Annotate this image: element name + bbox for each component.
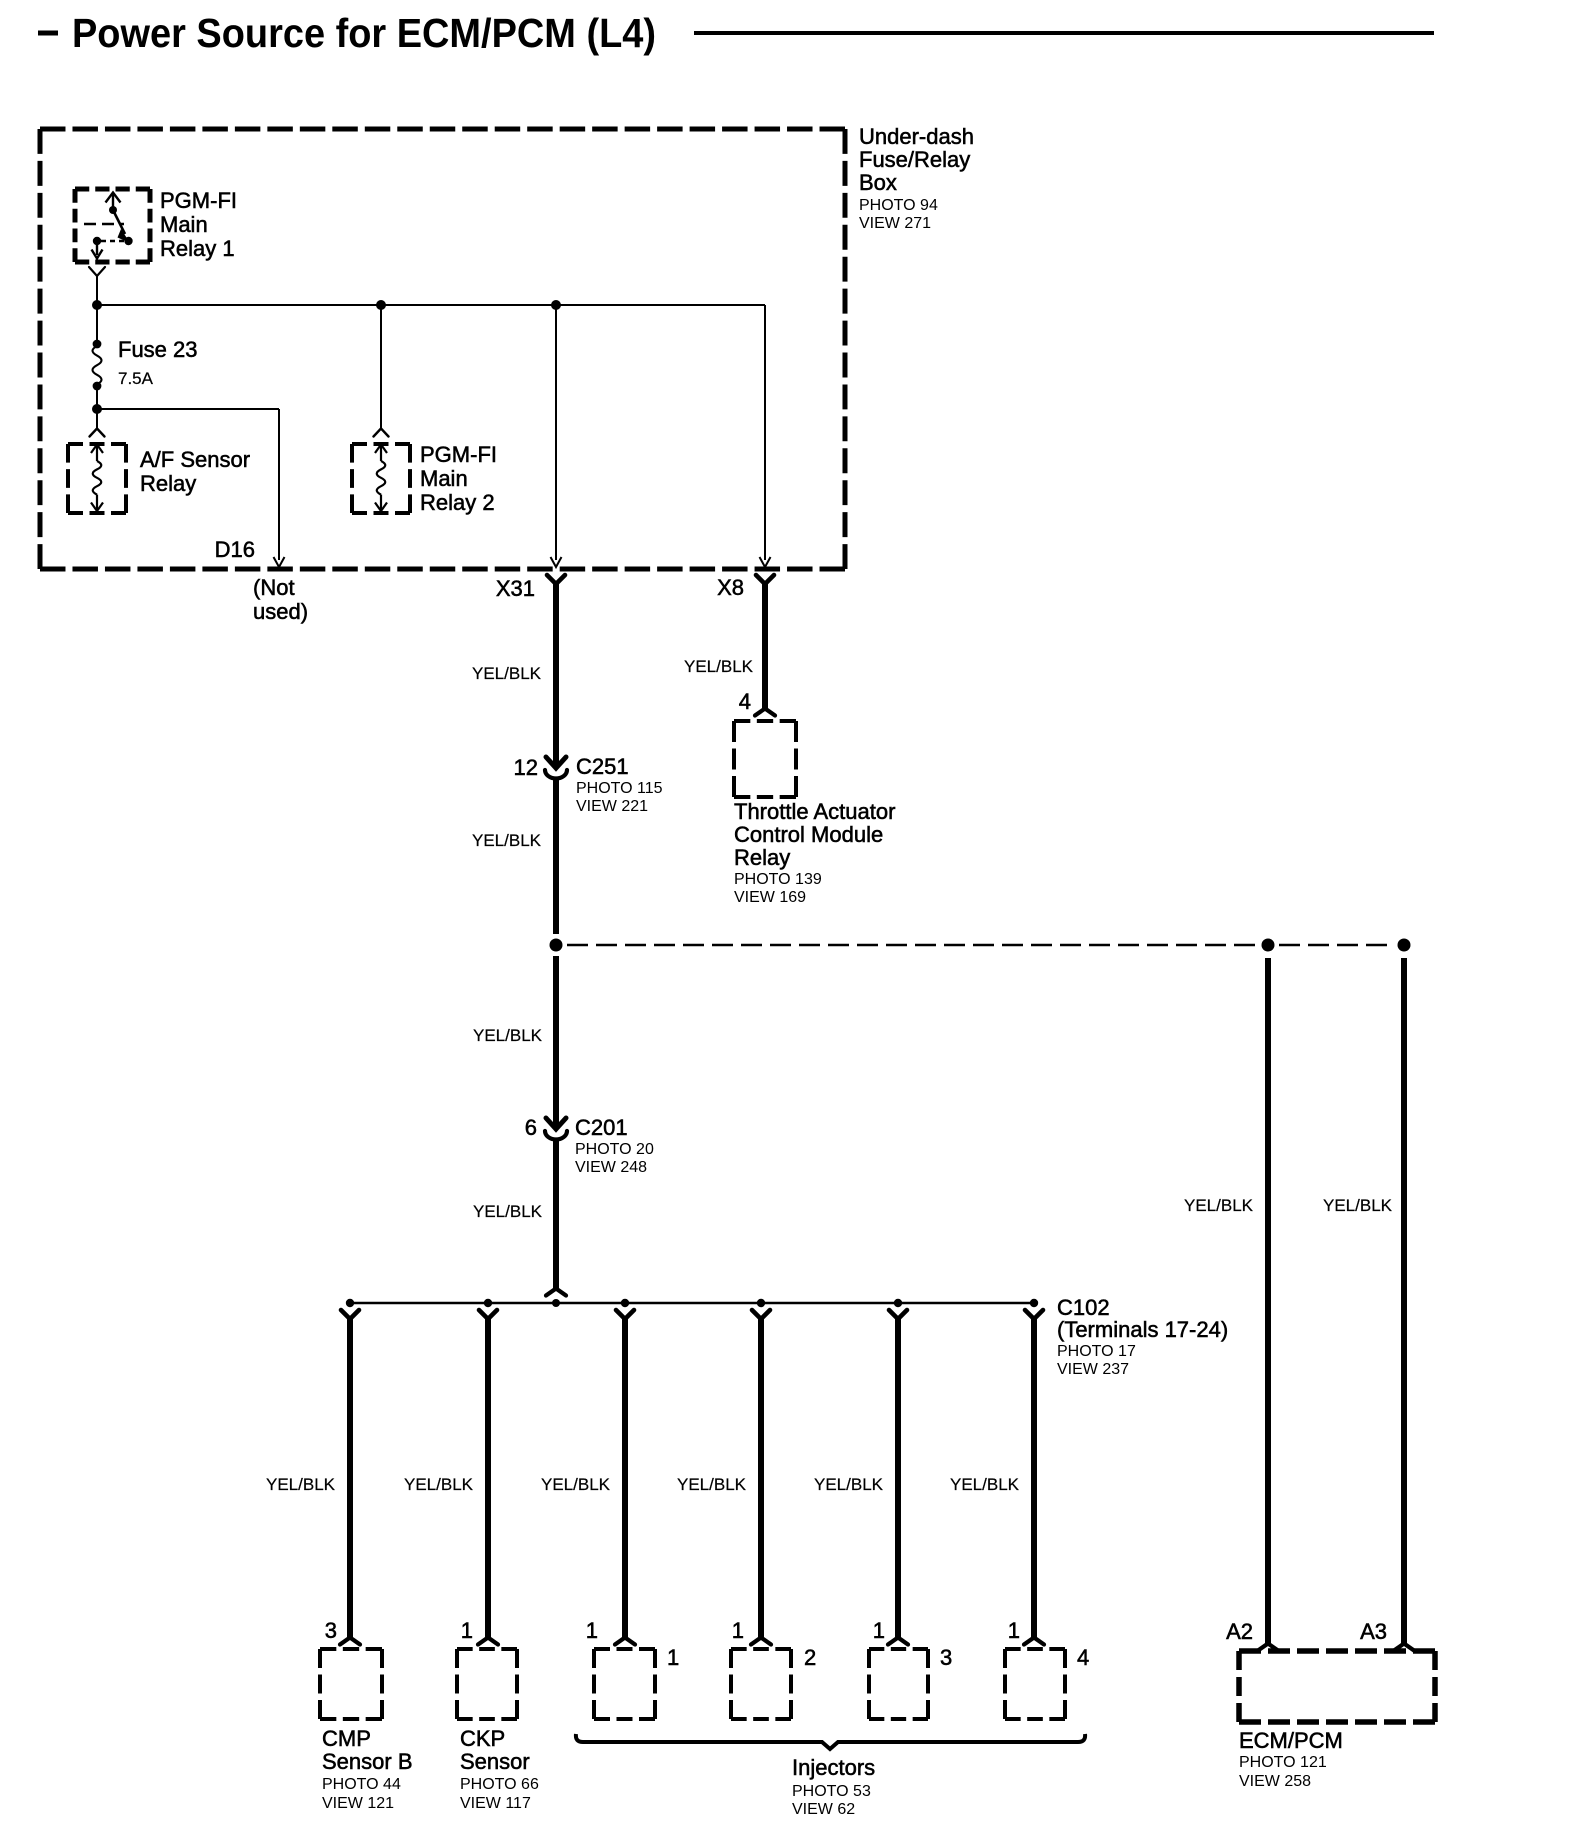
junction node C (A2 col) xyxy=(1262,939,1275,952)
fork connector branch 4 xyxy=(752,1310,770,1319)
wire lower bus xyxy=(350,1302,1034,1304)
relay K3 coil symbol xyxy=(375,445,387,512)
svg-text:Main: Main xyxy=(160,212,208,237)
arch connector branch 5 xyxy=(888,1638,908,1645)
svg-text:Throttle Actuator: Throttle Actuator xyxy=(734,799,895,824)
wire branch 6 (YEL/BLK) xyxy=(1031,1318,1037,1637)
relay K1 upper contact dot xyxy=(109,206,117,214)
arch connector at lower bus feed xyxy=(546,1289,566,1296)
title dash xyxy=(38,31,58,36)
arch connector branch 3 xyxy=(615,1638,635,1645)
relay K1 PGM-FI Main Relay 1 box (dashed) xyxy=(75,189,150,262)
throttle actuator control module relay box (dashed) xyxy=(734,721,796,797)
arch connector at ECM pin A3 xyxy=(1394,1644,1414,1651)
wire branch 2 (YEL/BLK) xyxy=(485,1318,491,1637)
junction lower bus dot 3 xyxy=(552,1299,560,1307)
under-dash fuse/relay box (dashed) xyxy=(40,129,845,569)
svg-text:Fuse/Relay: Fuse/Relay xyxy=(859,147,970,172)
relay K1 moving contact dot xyxy=(124,237,132,245)
arch connector branch 4 xyxy=(751,1638,771,1645)
junction lower bus dot 7 xyxy=(1030,1299,1038,1307)
svg-text:4: 4 xyxy=(739,689,751,714)
svg-text:VIEW 121: VIEW 121 xyxy=(322,1795,394,1812)
fork connector below relay K1 xyxy=(89,267,105,276)
ECM/PCM box (dashed) xyxy=(1239,1651,1435,1722)
junction node A (relay2 col) xyxy=(376,300,386,310)
junction lower bus dot 2 xyxy=(484,1299,492,1307)
svg-text:6: 6 xyxy=(525,1115,537,1140)
svg-text:YEL/BLK: YEL/BLK xyxy=(677,1475,747,1494)
fork connector branch 1 xyxy=(341,1310,359,1319)
svg-text:Relay 2: Relay 2 xyxy=(420,490,495,515)
wire node B to A/F sensor relay xyxy=(96,409,98,428)
arch connector branch 1 xyxy=(340,1638,360,1645)
svg-text:A3: A3 xyxy=(1360,1619,1387,1644)
arrow into border at X31 xyxy=(551,557,562,567)
svg-text:VIEW 248: VIEW 248 xyxy=(575,1159,647,1176)
svg-text:Fuse 23: Fuse 23 xyxy=(118,337,198,362)
injector 2 box (dashed) xyxy=(731,1649,791,1719)
svg-text:3: 3 xyxy=(940,1645,952,1670)
wire X8 to TAC relay (YEL/BLK) xyxy=(762,583,768,708)
junction node A (fuse col) xyxy=(92,300,102,310)
wire relay K1 to node A xyxy=(96,276,98,305)
svg-text:1: 1 xyxy=(1008,1618,1020,1643)
svg-text:3: 3 xyxy=(325,1618,337,1643)
svg-text:YEL/BLK: YEL/BLK xyxy=(472,831,542,850)
svg-text:PHOTO 53: PHOTO 53 xyxy=(792,1783,871,1800)
svg-text:Control Module: Control Module xyxy=(734,822,883,847)
arrow into border at X8 xyxy=(760,557,771,567)
wire node A corner to X8 xyxy=(764,305,766,560)
svg-text:X8: X8 xyxy=(717,575,744,600)
junction lower bus dot 6 xyxy=(894,1299,902,1307)
svg-text:PHOTO 20: PHOTO 20 xyxy=(575,1141,654,1158)
svg-text:ECM/PCM: ECM/PCM xyxy=(1239,1728,1343,1753)
svg-text:2: 2 xyxy=(804,1645,816,1670)
svg-text:YEL/BLK: YEL/BLK xyxy=(1323,1196,1393,1215)
wire branch 5 (YEL/BLK) xyxy=(895,1318,901,1637)
injectors brace xyxy=(576,1734,1085,1749)
arch connector at TAC relay pin 4 xyxy=(755,709,775,716)
svg-text:1: 1 xyxy=(461,1618,473,1643)
connector C251 inline symbol xyxy=(546,757,566,768)
dashed tie node C to A2 wire xyxy=(567,944,1257,946)
arch connector branch 2 xyxy=(478,1638,498,1645)
wire node C to ECM A2 (YEL/BLK) xyxy=(1265,958,1271,1643)
title rule xyxy=(694,31,1434,35)
svg-text:PGM-FI: PGM-FI xyxy=(420,442,497,467)
wire fuse 23 to node B xyxy=(96,390,98,409)
svg-text:YEL/BLK: YEL/BLK xyxy=(814,1475,884,1494)
arrow into border at D16 xyxy=(274,557,285,567)
wire node C to C201 (YEL/BLK) xyxy=(553,956,559,1126)
svg-text:X31: X31 xyxy=(496,576,535,601)
junction lower bus dot 1 xyxy=(346,1299,354,1307)
svg-text:CKP: CKP xyxy=(460,1726,505,1751)
relay K2 A/F Sensor Relay box (dashed) xyxy=(68,444,126,513)
fork connector branch 2 xyxy=(479,1310,497,1319)
wire X31 to C251 (YEL/BLK) xyxy=(553,583,559,765)
svg-text:VIEW 237: VIEW 237 xyxy=(1057,1361,1129,1378)
dashed tie A2 wire to A3 wire xyxy=(1279,944,1393,946)
svg-text:Relay: Relay xyxy=(734,845,790,870)
svg-text:YEL/BLK: YEL/BLK xyxy=(1184,1196,1254,1215)
svg-text:A/F Sensor: A/F Sensor xyxy=(140,447,250,472)
svg-text:Relay: Relay xyxy=(140,471,196,496)
svg-text:12: 12 xyxy=(514,755,538,780)
svg-text:CMP: CMP xyxy=(322,1726,371,1751)
svg-text:1: 1 xyxy=(873,1618,885,1643)
wire node C to ECM A3 (YEL/BLK) xyxy=(1401,958,1407,1643)
svg-text:C201: C201 xyxy=(575,1115,628,1140)
svg-text:YEL/BLK: YEL/BLK xyxy=(684,657,754,676)
fork connector branch 5 xyxy=(889,1310,907,1319)
junction lower bus dot 5 xyxy=(757,1299,765,1307)
svg-text:7.5A: 7.5A xyxy=(118,369,154,388)
svg-text:VIEW 258: VIEW 258 xyxy=(1239,1773,1311,1790)
svg-text:VIEW 271: VIEW 271 xyxy=(859,215,931,232)
svg-text:YEL/BLK: YEL/BLK xyxy=(472,664,542,683)
svg-text:C251: C251 xyxy=(576,754,629,779)
fork connector X31 xyxy=(547,575,565,584)
injector 4 box (dashed) xyxy=(1005,1649,1065,1719)
wire C251 to node C (YEL/BLK) xyxy=(553,779,559,934)
svg-text:PHOTO 139: PHOTO 139 xyxy=(734,871,822,888)
injector 3 box (dashed) xyxy=(869,1649,928,1719)
wire node B to D16 column xyxy=(97,408,279,410)
arch connector at ECM pin A2 xyxy=(1258,1644,1278,1651)
wire node A to fuse 23 xyxy=(96,305,98,340)
relay K2 coil symbol xyxy=(91,445,103,512)
fuse 23 bottom dot xyxy=(93,382,102,391)
CKP sensor box (dashed) xyxy=(457,1649,517,1719)
junction node C (A3 col) xyxy=(1398,939,1411,952)
svg-text:PHOTO 44: PHOTO 44 xyxy=(322,1776,401,1793)
svg-text:VIEW 62: VIEW 62 xyxy=(792,1801,855,1818)
svg-text:D16: D16 xyxy=(215,537,255,562)
wire top bus (node A) xyxy=(97,304,765,306)
svg-text:YEL/BLK: YEL/BLK xyxy=(473,1202,543,1221)
junction node A (X31 col) xyxy=(551,300,561,310)
svg-text:Box: Box xyxy=(859,170,897,195)
svg-text:1: 1 xyxy=(667,1645,679,1670)
svg-text:A2: A2 xyxy=(1226,1619,1253,1644)
svg-text:PGM-FI: PGM-FI xyxy=(160,188,237,213)
svg-text:(Not: (Not xyxy=(253,575,295,600)
wire branch 3 (YEL/BLK) xyxy=(622,1318,628,1637)
arch connector branch 6 xyxy=(1024,1638,1044,1645)
svg-text:VIEW 117: VIEW 117 xyxy=(460,1795,531,1812)
junction lower bus dot 4 xyxy=(621,1299,629,1307)
injector 1 box (dashed) xyxy=(594,1649,655,1719)
svg-text:used): used) xyxy=(253,599,308,624)
wire D16 drop xyxy=(278,409,280,560)
svg-text:VIEW 169: VIEW 169 xyxy=(734,889,806,906)
svg-text:Under-dash: Under-dash xyxy=(859,124,974,149)
svg-text:Injectors: Injectors xyxy=(792,1755,875,1780)
wire C201 to lower bus (YEL/BLK) xyxy=(553,1140,559,1288)
svg-text:YEL/BLK: YEL/BLK xyxy=(473,1026,543,1045)
svg-text:PHOTO 115: PHOTO 115 xyxy=(576,780,663,797)
svg-text:PHOTO 17: PHOTO 17 xyxy=(1057,1343,1136,1360)
wire node A to X31 xyxy=(555,305,557,560)
fuse 23 element xyxy=(93,346,102,384)
svg-text:Sensor B: Sensor B xyxy=(322,1749,413,1774)
svg-text:PHOTO 66: PHOTO 66 xyxy=(460,1776,539,1793)
svg-text:YEL/BLK: YEL/BLK xyxy=(541,1475,611,1494)
arch connector at A/F sensor relay xyxy=(90,429,105,437)
fork connector branch 6 xyxy=(1025,1310,1043,1319)
svg-text:1: 1 xyxy=(586,1618,598,1643)
svg-text:(Terminals 17-24): (Terminals 17-24) xyxy=(1057,1317,1228,1342)
fork connector branch 3 xyxy=(616,1310,634,1319)
junction node B xyxy=(92,404,102,414)
fork connector X8 xyxy=(756,575,774,584)
relay K3 PGM-FI Main Relay 2 box (dashed) xyxy=(352,444,410,513)
junction node C (X31 col) xyxy=(550,939,563,952)
svg-text:YEL/BLK: YEL/BLK xyxy=(950,1475,1020,1494)
fuse 23 top dot xyxy=(93,340,102,349)
svg-text:1: 1 xyxy=(732,1618,744,1643)
svg-text:PHOTO 121: PHOTO 121 xyxy=(1239,1754,1327,1771)
relay K1 lower contact dot xyxy=(93,237,101,245)
connector C201 inline symbol xyxy=(546,1118,566,1129)
svg-text:YEL/BLK: YEL/BLK xyxy=(404,1475,474,1494)
wire branch 4 (YEL/BLK) xyxy=(758,1318,764,1637)
svg-text:YEL/BLK: YEL/BLK xyxy=(266,1475,336,1494)
arch connector at relay K3 xyxy=(374,429,389,437)
wire branch 1 (YEL/BLK) xyxy=(347,1318,353,1637)
svg-text:Relay 1: Relay 1 xyxy=(160,236,235,261)
svg-text:VIEW 221: VIEW 221 xyxy=(576,798,648,815)
svg-text:Sensor: Sensor xyxy=(460,1749,530,1774)
wire node A to relay K3 xyxy=(380,305,382,428)
CMP sensor B box (dashed) xyxy=(320,1649,382,1719)
svg-text:Main: Main xyxy=(420,466,468,491)
relay K1 contact symbol xyxy=(84,193,125,259)
svg-text:Power Source for ECM/PCM (L4): Power Source for ECM/PCM (L4) xyxy=(72,10,656,56)
svg-text:PHOTO 94: PHOTO 94 xyxy=(859,197,938,214)
svg-text:4: 4 xyxy=(1077,1645,1089,1670)
